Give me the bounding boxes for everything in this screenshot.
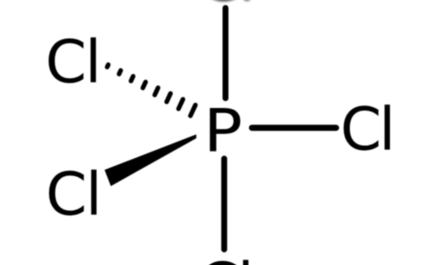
label Cl (bottom chlorine, cropped) letter C [202,261,237,265]
label Cl (top-left chlorine) letter l [91,37,96,82]
wire P to top (axial bond up) [223,8,229,98]
label Cl (bottom-left chlorine) letter l [91,170,96,215]
label Cl (top chlorine, cropped at top edge) letter l [244,0,249,1]
label Cl (top-left chlorine) letter C [49,38,84,83]
wire P to right Cl (equatorial bond) [252,125,336,131]
solid wedge bond P-Cl(bottom-left) [105,135,196,185]
label Cl (bottom-left chlorine) letter C [49,171,84,216]
label Cl (right chlorine) letter C [344,106,379,151]
atom P (central phosphorus) [210,108,240,151]
hashed wedge bond Cl(top-left)-P (8 hash marks) [107,65,195,116]
label Cl (bottom chlorine, cropped) letter l [243,260,248,265]
label Cl (top chlorine, cropped at top edge) letter C [203,0,238,2]
label Cl (right chlorine) letter l [385,105,390,150]
wire P to bottom Cl (axial bond down) [221,159,227,250]
